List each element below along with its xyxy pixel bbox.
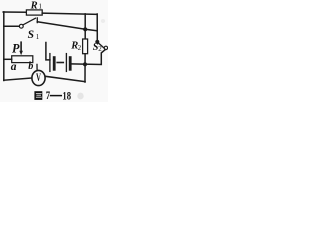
battery cell1 long thin plate [49,54,51,72]
wire left vertical [3,12,5,81]
wire bottom left to voltmeter [4,78,33,80]
svg-text:1: 1 [39,4,42,11]
svg-text:a: a [11,61,17,73]
rheostat P slider arrow [20,42,22,51]
rheostat box [12,56,33,63]
svg-text:7: 7 [46,90,50,102]
svg-text:P: P [12,42,20,56]
wire R2 branch upper vertical [84,14,86,39]
svg-text:1: 1 [36,33,40,41]
wire rheostat left lead [4,58,12,60]
battery cell2 long thin plate [65,54,67,72]
faint scan smudge near right edge [101,19,105,23]
wire top left segment [3,11,27,13]
svg-text:V: V [36,72,41,84]
switch S2 fixed contact circle [104,46,107,49]
wire S1 branch from left vertical [4,25,19,27]
junction node at battery lead and R2 branch [83,62,87,66]
svg-text:S: S [28,29,34,41]
wire right vertical (top corner down to S2) [96,14,98,42]
battery cell2 short thick plate [69,58,72,70]
junction node at R2 branch and middle wire [83,27,87,31]
wire voltmeter to bottom right corner [45,76,85,81]
resistor R2 [83,39,88,54]
svg-text:b: b [28,61,33,72]
battery dashes between cells [61,62,63,64]
wire top right segment [42,13,97,14]
battery cell1 short thick plate [53,58,56,70]
svg-text:18: 18 [62,90,71,102]
wire middle (S1 to right vertical) [37,22,97,31]
wire R2 branch lower vertical [84,54,86,82]
svg-text:2: 2 [78,44,82,52]
faint scan smudge bottom right [77,93,83,100]
resistor R1 [26,10,42,15]
wire b terminal to voltmeter [36,64,38,70]
switch S2 blade [99,43,105,48]
switch S1 blade [23,18,36,25]
wire S2 to battery right lead [71,50,105,65]
voltmeter V [32,70,45,85]
wire battery left lead and riser [46,43,50,60]
switch S1 fixed contact tick [36,18,38,23]
caption 图 glyph [34,91,42,100]
svg-text:R: R [30,0,38,11]
switch S1 pivot circle [19,24,23,28]
switch S2 junction dot [95,40,99,44]
